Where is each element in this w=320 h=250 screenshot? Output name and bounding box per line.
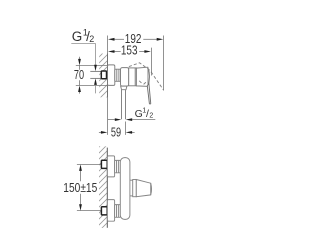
svg-text:150±15: 150±15 [63, 180, 97, 195]
svg-text:153: 153 [121, 44, 138, 58]
svg-text:59: 59 [111, 125, 121, 139]
svg-text:G: G [72, 29, 83, 44]
svg-text:2: 2 [149, 113, 153, 120]
svg-text:2: 2 [89, 34, 94, 44]
svg-text:70: 70 [74, 68, 84, 82]
